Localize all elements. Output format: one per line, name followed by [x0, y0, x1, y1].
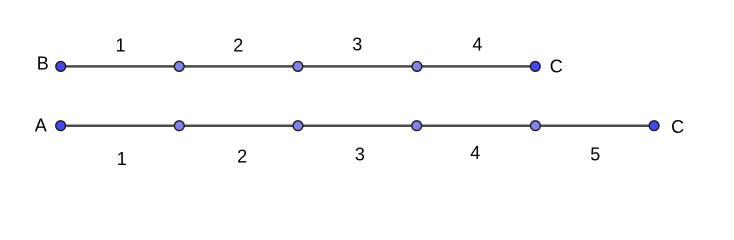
- svg-text:3: 3: [352, 34, 362, 54]
- svg-text:1: 1: [115, 36, 125, 56]
- point on AC at 3: [412, 121, 422, 131]
- svg-text:B: B: [37, 54, 49, 74]
- point A (endpoint dot): [56, 121, 66, 131]
- svg-text:2: 2: [233, 36, 243, 56]
- svg-text:C: C: [550, 56, 563, 76]
- point on BC at 1: [174, 62, 184, 72]
- point on AC at 1: [174, 121, 184, 131]
- svg-text:4: 4: [470, 143, 480, 163]
- svg-text:4: 4: [472, 35, 482, 55]
- point C bottom (endpoint dot): [649, 121, 659, 131]
- point on BC at 3: [412, 62, 422, 72]
- point C top (endpoint dot): [530, 62, 540, 72]
- svg-text:2: 2: [237, 146, 247, 166]
- point on AC at 2: [293, 121, 303, 131]
- svg-text:C: C: [671, 117, 684, 137]
- svg-text:5: 5: [590, 145, 600, 165]
- segment B to C (top line): [61, 65, 536, 68]
- svg-text:A: A: [35, 116, 47, 136]
- segment A to C (bottom line): [61, 124, 655, 127]
- point on BC at 2: [293, 62, 303, 72]
- point B (endpoint dot): [56, 62, 66, 72]
- point on AC at 4: [531, 121, 541, 131]
- svg-text:1: 1: [117, 149, 127, 169]
- svg-text:3: 3: [355, 144, 365, 164]
